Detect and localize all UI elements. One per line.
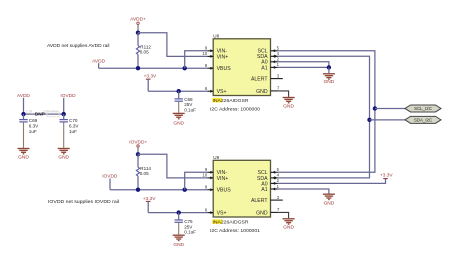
- node: A0/A1 junction: [327, 65, 331, 69]
- port SDA_I2C: [405, 116, 441, 123]
- svg-text:25V: 25V: [184, 224, 193, 229]
- svg-text:L10: L10: [26, 110, 32, 114]
- pin 3 ALERT (no connect stub): [251, 73, 283, 82]
- svg-text:GND: GND: [283, 103, 294, 109]
- pin 9 VIN-: [205, 46, 227, 55]
- svg-text:U9: U9: [213, 155, 219, 160]
- wire: U8 GND pin to ground: [278, 91, 289, 97]
- node: R112 bottom on AVDD rail: [136, 66, 140, 70]
- svg-text:0.1uF: 0.1uF: [184, 108, 196, 113]
- node: IOVDD/C70 junction: [62, 112, 66, 116]
- ground at U8 A0/A1: [323, 67, 335, 85]
- svg-text:I2C Address: 1000001: I2C Address: 1000001: [210, 228, 260, 233]
- pin 8 VBUS (U9): [205, 185, 231, 194]
- svg-text:C68: C68: [184, 97, 193, 102]
- svg-text:IOVDD net supplies IOVDD rail: IOVDD net supplies IOVDD rail: [48, 199, 119, 204]
- svg-text:VS+: VS+: [217, 210, 227, 216]
- wire: IOVDD rail to VBUS (pin 8): [110, 189, 207, 191]
- value label INA226AIDGSR (U9): [212, 219, 249, 224]
- pin 2 A0 (U9): [261, 178, 279, 187]
- node: VIN- branch on IOVDD rail: [183, 188, 187, 192]
- node: IOVDD+ junction: [136, 152, 140, 156]
- svg-text:IOVDD: IOVDD: [60, 93, 76, 99]
- pin 10 VIN+ (U9): [203, 173, 229, 182]
- wire: AVDD+ down to R112: [137, 33, 139, 46]
- wire: U8 A1 to ground: [278, 66, 329, 68]
- node: C68 tap: [177, 89, 181, 93]
- svg-text:VBUS: VBUS: [217, 188, 232, 194]
- op-amp U8 body: [213, 34, 270, 96]
- svg-text:0.05: 0.05: [140, 49, 149, 54]
- svg-text:ALERT: ALERT: [251, 76, 268, 82]
- svg-text:GND: GND: [324, 79, 335, 85]
- power port AVDD+: [130, 17, 146, 33]
- ground at U8 pin 7: [283, 98, 295, 110]
- wire: +3.3V to VS+ (pin 6): [148, 212, 207, 214]
- svg-text:A1: A1: [261, 187, 267, 193]
- wire: C70 to ground: [63, 122, 65, 148]
- pin 4 SDA (U9): [257, 173, 280, 182]
- svg-text:GND: GND: [324, 201, 335, 207]
- wire: AVDD rail to VIN- (pin 9): [185, 51, 208, 68]
- svg-text:GND: GND: [173, 242, 184, 248]
- svg-text:DNP: DNP: [35, 111, 45, 116]
- svg-text:INA226AIDGSR: INA226AIDGSR: [213, 219, 250, 224]
- wire: +3.3V to VS+ (pin 6): [148, 90, 207, 92]
- wire: U9 A0 to +3.3V: [278, 179, 386, 184]
- wire: AVDD rail to VBUS (pin 8): [99, 67, 208, 69]
- pin 10 VIN+: [203, 51, 229, 60]
- wire: U8 A0 to A1: [278, 62, 329, 68]
- pin 3 ALERT (U9, no connect stub): [251, 195, 283, 204]
- svg-text:VBUS: VBUS: [217, 66, 232, 72]
- svg-text:GND: GND: [173, 120, 184, 126]
- svg-text:1uF: 1uF: [69, 129, 77, 134]
- ground under C69: [18, 149, 30, 161]
- svg-text:A1: A1: [261, 65, 267, 71]
- node: R114 bottom on IOVDD rail: [136, 188, 140, 192]
- node: C75 tap: [177, 210, 181, 214]
- node: SDA bus tap: [367, 118, 371, 122]
- port SCL_I2C: [405, 105, 441, 112]
- pin 1 A1 (U9): [261, 184, 279, 193]
- power port +3.3V (A0 of U9): [380, 173, 393, 179]
- net label IOVDD (left): [60, 93, 76, 114]
- svg-text:6.3V: 6.3V: [29, 124, 39, 129]
- ground under C75: [173, 235, 185, 248]
- net label AVDD (left): [17, 93, 31, 114]
- svg-text:VIN+: VIN+: [217, 176, 229, 182]
- svg-text:AVDD net supplies AVDD rail: AVDD net supplies AVDD rail: [47, 43, 110, 48]
- wire: C69 to ground: [23, 122, 25, 148]
- value label INA226AIDGSR (U8): [212, 98, 249, 103]
- pin 6 VS+ (U9): [205, 207, 227, 216]
- svg-text:U8: U8: [213, 34, 219, 39]
- pin 9 VIN- (U9): [205, 167, 227, 176]
- svg-text:GND: GND: [58, 154, 69, 160]
- capacitor C68 25V 0.1uF: [175, 91, 197, 112]
- svg-text:GND: GND: [283, 225, 294, 231]
- resistor R114 0.05: [136, 166, 151, 176]
- svg-text:SDA_I2C: SDA_I2C: [414, 118, 432, 123]
- svg-text:C70: C70: [69, 118, 78, 123]
- pin 7 GND: [256, 86, 280, 95]
- ferrite bead L10 DNP (not populated, greyed): [26, 109, 59, 116]
- pin 8 VBUS: [205, 63, 231, 72]
- wire: C75 to ground: [178, 222, 180, 234]
- ground under C68: [173, 113, 185, 126]
- wire: U8 SDA to I2C bus: [278, 56, 370, 178]
- svg-text:C69: C69: [29, 118, 38, 123]
- svg-text:GND: GND: [18, 154, 29, 160]
- wire: C68 to ground: [178, 101, 180, 113]
- net label IOVDD (rail): [102, 174, 118, 190]
- wire: AVDD+ to VIN+ (pin 10): [138, 33, 207, 57]
- pin 6 VS+: [205, 86, 227, 95]
- capacitor C69 6.3V 1uF: [19, 114, 39, 134]
- node: SCL bus tap: [373, 106, 377, 110]
- svg-text:GND: GND: [256, 210, 268, 216]
- pin 4 SDA: [257, 51, 280, 60]
- wire: SDA bus to port: [370, 119, 406, 121]
- net label AVDD: [92, 58, 106, 68]
- svg-text:1uF: 1uF: [29, 129, 37, 134]
- wire: U9 GND pin to ground: [278, 212, 289, 218]
- svg-text:INA226AIDGSR: INA226AIDGSR: [213, 98, 250, 103]
- wire: R114 to IOVDD rail: [137, 176, 139, 190]
- node: AVDD+ junction: [136, 31, 140, 35]
- wire: U8 SCL to I2C bus: [278, 51, 375, 173]
- wire: IOVDD rail to VIN- (pin 9): [185, 172, 208, 189]
- ground at U9 pin 7: [283, 219, 295, 231]
- svg-text:I2C Address: 1000000: I2C Address: 1000000: [210, 107, 260, 112]
- wire: R112 to AVDD rail: [137, 54, 139, 68]
- pin 7 GND (U9): [256, 207, 280, 216]
- svg-text:C75: C75: [184, 219, 193, 224]
- svg-text:0.05: 0.05: [140, 171, 149, 176]
- wire: IOVDD+ down to R114: [137, 154, 139, 167]
- capacitor C75 25V 0.1uF: [175, 213, 197, 235]
- wire: IOVDD+ to VIN+ (pin 10): [138, 154, 207, 178]
- pin 1 A1: [261, 62, 279, 71]
- power port IOVDD+: [129, 139, 147, 154]
- wire: SCL bus to port: [375, 107, 405, 109]
- ground at U9 A1: [323, 194, 335, 206]
- op-amp U9 body: [213, 155, 270, 217]
- svg-text:+3.3V: +3.3V: [380, 173, 393, 179]
- svg-text:VS+: VS+: [217, 89, 227, 95]
- power port +3.3V (top): [144, 74, 157, 92]
- wire: AVDD to IOVDD (DNP link): [24, 113, 64, 115]
- svg-text:25V: 25V: [184, 102, 193, 107]
- ground under C70: [58, 149, 70, 161]
- svg-text:GND: GND: [256, 89, 268, 95]
- power port +3.3V (bottom left): [143, 196, 156, 213]
- node: AVDD/C69 junction: [21, 112, 25, 116]
- svg-text:ALERT: ALERT: [251, 198, 268, 204]
- wire: U9 A1 to ground: [278, 189, 329, 194]
- node: VIN- branch on AVDD rail: [183, 66, 187, 70]
- capacitor C70 6.3V 1uF: [60, 114, 80, 134]
- pin 5 SCL (U9): [258, 167, 280, 176]
- resistor R112 0.05: [136, 44, 151, 54]
- svg-text:SCL_I2C: SCL_I2C: [414, 106, 432, 111]
- svg-text:10: 10: [203, 51, 208, 56]
- svg-text:6.3V: 6.3V: [69, 124, 79, 129]
- pin 5 SCL: [258, 46, 280, 55]
- pin 2 A0: [261, 57, 279, 66]
- svg-text:VIN+: VIN+: [217, 54, 229, 60]
- svg-text:0.1uF: 0.1uF: [184, 230, 196, 235]
- svg-text:10: 10: [203, 173, 208, 178]
